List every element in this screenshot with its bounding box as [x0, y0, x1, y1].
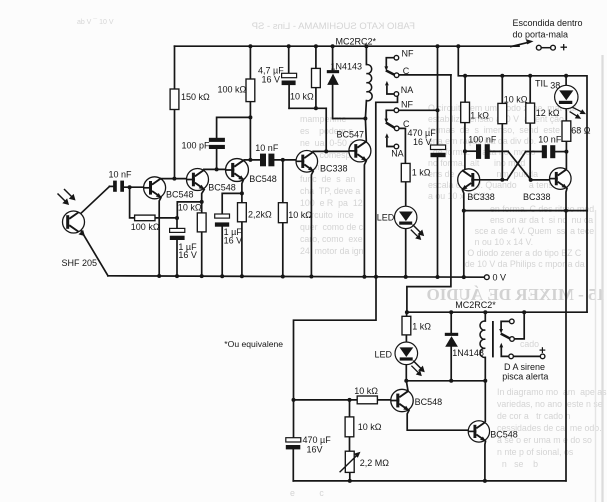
- contact NF1 circle: [394, 55, 399, 60]
- node 1uF C2 top: [175, 216, 179, 220]
- node Q5 base: [324, 149, 328, 153]
- relay coil K1: [366, 64, 372, 100]
- node Q2 collector tap: [215, 167, 219, 171]
- wire 470uF C7 drop from rail junction: [437, 46, 439, 145]
- svg-text:ab V ¯ 10 V: ab V ¯ 10 V: [75, 18, 114, 26]
- wire 100nF right to diagonal start: [490, 150, 508, 152]
- transistor Q6 BC548 lower: [391, 389, 413, 411]
- wire C1 long drop to lower section: [407, 75, 451, 312]
- resistor R7 10k: [278, 203, 287, 223]
- svg-text:LED: LED: [375, 350, 393, 360]
- svg-text:1N4148: 1N4148: [452, 348, 484, 358]
- SHF205 incoming light arrows: [58, 194, 70, 206]
- contact NA2 arrow: [385, 133, 389, 138]
- svg-text:*Ou equivalene: *Ou equivalene: [224, 339, 283, 349]
- wire Q5 emitter to rail: [364, 161, 366, 277]
- wire Q2 emitter node jog to 1uF node: [177, 202, 201, 218]
- node NF2 tap: [436, 108, 440, 112]
- trimmer arrow on R18: [340, 452, 361, 473]
- wire 10nF C9 right to collector node: [555, 151, 566, 153]
- capacitor C6 4.7uF electrolytic: [282, 73, 297, 85]
- resistor R10 1k: [401, 163, 410, 181]
- node Q2 emitter tap: [200, 200, 204, 204]
- wire NA2 left lead: [387, 139, 394, 147]
- svg-text:NF: NF: [402, 49, 414, 59]
- contact NA2 circle: [394, 144, 399, 149]
- contact NF2 arrow: [384, 119, 388, 124]
- resistor R1 150k: [170, 89, 179, 110]
- node lower bottom rail: [348, 479, 352, 483]
- wire Q4 collector to Q5 base: [313, 150, 349, 152]
- svg-text:no forma, alt ino med: no forma, alt ino med: [428, 158, 525, 168]
- sirene terminal circle right: [540, 354, 545, 359]
- svg-text:ens de ar da nm pueda: ens de ar da nm pueda: [428, 169, 538, 179]
- svg-text:Escondida dentro: Escondida dentro: [513, 18, 583, 28]
- resistor R2 100k vertical: [246, 79, 255, 102]
- wire coil K1 bottom to W2 node: [365, 101, 366, 119]
- wire 4.7uF top to rail: [288, 46, 290, 73]
- wire 470uF C7 bottom to 0V rail: [437, 157, 439, 277]
- svg-text:O diodo zener a do tipo BZ C: O diodo zener a do tipo BZ C: [460, 248, 586, 258]
- wire flip-flop supply branch from top rail: [458, 46, 587, 312]
- svg-text:100 e R pa 12: 100 e R pa 12: [300, 198, 365, 208]
- svg-text:NA: NA: [391, 149, 404, 159]
- relay2 contact NF circle: [510, 319, 515, 324]
- contact arm K1b: [386, 123, 395, 128]
- wire 150k bottom to Q1 collector node: [174, 110, 176, 179]
- wire phototransistor emitter diagonal to 0V rail: [81, 230, 108, 275]
- wire NF2 left lead: [386, 110, 394, 119]
- wire Q2 emitter down: [202, 190, 205, 213]
- capacitor C5 1uF electrolytic: [215, 214, 230, 227]
- contact NA1 circle: [394, 92, 399, 97]
- resistor R5 2.2k: [238, 203, 247, 222]
- svg-text:2,2 MΩ: 2,2 MΩ: [360, 458, 390, 468]
- wire lower LED branch 1k top: [406, 312, 408, 316]
- svg-text:BC338: BC338: [523, 192, 551, 202]
- wire cross diagonal B: [507, 152, 526, 180]
- LED1 light arrows: [413, 225, 425, 237]
- wire flip-flop emitter bus: [464, 210, 587, 212]
- wire Q9 base from diagonal: [531, 179, 550, 181]
- battery switch terminals: [536, 45, 555, 50]
- svg-text:pisca alerta: pisca alerta: [502, 371, 548, 381]
- wire Q3 emitter down to 2.2k: [242, 180, 244, 203]
- wire ff 1k R11 bottom to Q8 collector node: [464, 123, 466, 152]
- wire relay coil K1 top to rail: [365, 46, 367, 64]
- wire TIL38 to 68R: [565, 109, 567, 121]
- transistor Q8 BC338 flip-flop left (mirrored): [458, 169, 480, 191]
- wire 100k R5 bottom to Q3 collector node: [249, 102, 251, 160]
- svg-text:12 kΩ: 12 kΩ: [536, 108, 560, 118]
- node Q9 base 12k: [529, 178, 533, 182]
- svg-text:10 kΩ: 10 kΩ: [504, 95, 528, 105]
- svg-text:BC338: BC338: [467, 192, 495, 202]
- wire lower bottom rail: [293, 480, 566, 482]
- TIL38 light arrows: [570, 107, 586, 119]
- wire relay2 pole from rail: [514, 312, 524, 339]
- wire 4.7uF bottom to W1: [288, 85, 290, 108]
- node top rail junctions: [248, 44, 252, 48]
- svg-text:10 nF: 10 nF: [538, 135, 562, 145]
- wire Q1 emitter down to rail: [159, 198, 161, 276]
- LED LED2 lower: [395, 342, 418, 365]
- transistor Q2 BC548: [187, 169, 209, 191]
- svg-text:NA: NA: [401, 85, 414, 95]
- wire coil K2 top: [484, 312, 486, 321]
- relay coil K2: [480, 321, 485, 358]
- svg-text:BC548: BC548: [415, 397, 443, 407]
- resistor R14 1k lower: [402, 316, 411, 335]
- resistor R11 1k flip-flop: [461, 102, 470, 122]
- wire lower section supply rail: [407, 311, 587, 313]
- wire 1k R10 bottom to LED1: [405, 182, 407, 207]
- wire 10nF C4 right to Q4 base node: [274, 159, 296, 161]
- resistor R16 10k vertical lower: [345, 417, 354, 437]
- resistor R12 10k flip-flop: [498, 103, 507, 123]
- svg-text:func de s an: func de s an: [300, 174, 355, 184]
- node Q8 base 10k: [500, 178, 504, 182]
- wire 470uF C10 bottom to bottom rail: [292, 450, 294, 481]
- svg-text:10 kΩ: 10 kΩ: [290, 92, 314, 102]
- wire C2 contact down to 1k: [399, 128, 406, 163]
- svg-text:BC548: BC548: [208, 182, 236, 192]
- relay2 contact arm: [501, 334, 510, 339]
- svg-text:2,2kΩ: 2,2kΩ: [248, 209, 272, 219]
- node 0V rail junctions: [157, 274, 161, 278]
- wire LED2 cathode to node: [405, 365, 407, 381]
- wire Q7 emitter to bottom rail: [484, 441, 487, 481]
- wire NF2 contact to 470uF drop: [399, 109, 438, 111]
- wire 10nF C1 right to Q1 base: [124, 186, 144, 188]
- wire BC547 base node up to W1: [325, 108, 327, 151]
- contact arm K1a: [386, 70, 395, 74]
- svg-text:ens on ar da t si nc nu ca: ens on ar da t si nc nu ca: [490, 215, 593, 225]
- wire Q9 emitter down: [566, 188, 567, 210]
- svg-text:10 kΩ: 10 kΩ: [178, 203, 202, 213]
- svg-text:BC548: BC548: [249, 174, 277, 184]
- svg-text:escala de 4 V. Quando a te: escala de 4 V. Quando a tensão: [428, 180, 563, 190]
- svg-text:100 kΩ: 100 kΩ: [131, 222, 160, 232]
- wire ff 1k R11 top: [464, 76, 466, 102]
- capacitor C8 100nF flip-flop: [476, 144, 490, 159]
- wire NA1 contact lead with arrow stub: [387, 86, 394, 94]
- svg-text:0 V: 0 V: [493, 273, 507, 283]
- diode D1 1N4143: [327, 70, 339, 85]
- resistor R6 10k top: [312, 68, 321, 87]
- wire 1uF C5 bottom to rail: [221, 227, 223, 277]
- svg-text:LED: LED: [377, 213, 395, 223]
- svg-text:quer como de c: quer como de c: [300, 222, 364, 232]
- sirene NA arrow: [499, 343, 503, 348]
- switch arrow on top rail (to battery): [510, 39, 534, 47]
- plus sign battery: [561, 44, 568, 50]
- wire 1uF C2 top to node: [176, 218, 178, 228]
- transistor Q5 BC547: [349, 140, 371, 162]
- page column rule (faint): [601, 55, 603, 502]
- svg-text:68 Ω: 68 Ω: [571, 125, 591, 135]
- svg-text:15 - MIXER DE ÁUDIO: 15 - MIXER DE ÁUDIO: [427, 285, 606, 304]
- wire Q5 collector up to W2 node: [364, 119, 367, 142]
- relay2 contact C circle: [510, 337, 515, 342]
- wire Q3 collector to 10nF C4: [243, 159, 260, 162]
- wire sirene NA lead: [501, 347, 509, 356]
- wire ff 12k R13 top: [529, 76, 531, 103]
- node lower rail junctions: [405, 310, 409, 314]
- wire Q8 collector up: [464, 151, 466, 169]
- capacitor C4 10nF interstage: [260, 154, 274, 167]
- LED TIL38: [555, 85, 578, 108]
- wire Q4 emitter to rail: [311, 171, 313, 276]
- wire 1uF C2 bottom to rail: [176, 240, 178, 276]
- svg-text:1 kΩ: 1 kΩ: [470, 111, 489, 121]
- svg-text:470 µF: 470 µF: [303, 435, 332, 445]
- wire ff 12k R13 down to Q9 base node: [529, 123, 531, 180]
- capacitor C7 470uF electrolytic: [431, 145, 446, 157]
- wire 10k R4 bottom to rail: [201, 232, 203, 276]
- wire ff bus right drop to lower section bottom rail: [565, 211, 567, 481]
- svg-text:38: 38: [550, 80, 560, 90]
- transistor Q3 BC548: [226, 159, 249, 182]
- wire NF1 contact lead: [386, 58, 394, 67]
- wire Q1 base node down to 100k left: [130, 187, 135, 218]
- wire Q8 emitter down: [462, 190, 463, 211]
- transistor Q1 BC548: [144, 177, 166, 199]
- diode D2 1N4148: [445, 333, 458, 347]
- svg-text:BC548: BC548: [166, 190, 194, 200]
- svg-text:cha TP, deve a: cha TP, deve a: [300, 186, 360, 196]
- resistor R17 10k horizontal lower: [357, 396, 377, 404]
- wire relay2 NF lead: [501, 321, 510, 329]
- svg-text:100 pF: 100 pF: [182, 140, 211, 150]
- sirene plus sign: [540, 347, 546, 353]
- node Q3 emitter tap: [240, 191, 244, 195]
- resistor R13 12k flip-flop: [526, 103, 535, 123]
- svg-text:n ou 10 x 14 V.: n ou 10 x 14 V.: [460, 237, 533, 247]
- wire 10k R16 drop: [349, 400, 351, 417]
- svg-text:BC548: BC548: [490, 429, 518, 439]
- wire ff 10k R12 top: [501, 76, 503, 104]
- wire Q1 collector to Q2 base: [157, 178, 187, 180]
- node Q9 collector: [564, 150, 568, 154]
- svg-text:10 nF: 10 nF: [109, 170, 133, 180]
- node Q6 base chain: [292, 398, 296, 402]
- wire W2 horizontal diode to coil node: [333, 118, 366, 120]
- capacitor C2 1uF electrolytic: [170, 228, 185, 240]
- wire LED1 cathode to rail: [405, 228, 407, 277]
- wire 10k R6 top to rail: [315, 46, 317, 68]
- svg-text:caro, como exe: caro, como exe: [300, 234, 363, 244]
- svg-text:BC338: BC338: [320, 164, 348, 174]
- svg-text:cado: cado: [520, 339, 539, 349]
- wire diode 1N4148 top: [450, 312, 452, 333]
- contact NF1 arrow: [384, 66, 388, 71]
- wire top supply rail: [175, 45, 520, 47]
- svg-text:NF: NF: [401, 100, 413, 110]
- relay K2 core bar: [492, 321, 494, 357]
- node 100pF top: [248, 115, 252, 119]
- node Q3 collector: [248, 158, 252, 162]
- wire 10k R16 to trimmer: [349, 437, 351, 451]
- transistor Q4 BC338: [296, 151, 318, 173]
- node Q1 base: [128, 185, 132, 189]
- wire ff bus left drop to 0V rail: [463, 211, 465, 278]
- capacitor C9 10nF flip-flop: [542, 145, 556, 158]
- resistor R18 2.2M trimmer body: [345, 451, 354, 472]
- node Q1 collector: [172, 177, 176, 181]
- svg-text:n nte p of sional, os: n nte p of sional, os: [497, 447, 574, 457]
- sirene terminal circle left: [509, 354, 514, 359]
- wire left drop to 150k: [174, 46, 176, 89]
- capacitor C3 100pF: [209, 138, 225, 149]
- svg-text:In diagramo mo am ape as: In diagramo mo am ape as: [497, 387, 607, 397]
- wire 10nF C9 left: [526, 151, 542, 153]
- svg-text:16V: 16V: [307, 445, 323, 455]
- wire Q8 base to diagonal B: [480, 179, 507, 181]
- LED LED1: [395, 206, 417, 228]
- wire NA1 to ground corner: [376, 96, 398, 277]
- node W2 coil: [363, 117, 367, 121]
- wire 470uF C10 drop: [293, 400, 295, 438]
- wire diode 1N4143 bottom to W2: [332, 85, 334, 119]
- wire 100nF node left: [465, 150, 476, 152]
- svg-text:16 V: 16 V: [413, 137, 432, 147]
- wire Q6 base chain: [294, 399, 392, 401]
- node Q8 collector: [463, 149, 467, 153]
- capacitor C10 470uF lower: [286, 438, 301, 450]
- phototransistor Q0 SHF205: [63, 211, 85, 236]
- svg-text:sce a de 4 V. Quem ss a tece: sce a de 4 V. Quem ss a tece: [460, 226, 594, 236]
- wire sirene terminal link: [513, 355, 540, 357]
- wire 1k R14 to LED2: [405, 335, 407, 342]
- wire 10nF C1 left stub to phototransistor: [110, 185, 114, 187]
- wire ff 10k R12 down to Q8 base wire: [501, 124, 503, 180]
- svg-text:16 V: 16 V: [178, 250, 197, 260]
- resistor R4 10k: [197, 213, 206, 232]
- svg-text:100 kΩ: 100 kΩ: [218, 85, 247, 95]
- svg-text:de cor a tr cado n: de cor a tr cado n: [497, 411, 570, 421]
- relay2 NF arrow: [499, 329, 503, 334]
- svg-text:1 kΩ: 1 kΩ: [412, 321, 431, 331]
- contact C1 circle: [394, 73, 399, 78]
- wire left return loop from 0V rail: [294, 277, 377, 400]
- svg-text:variedas, no ano este n se: variedas, no ano este n se: [497, 399, 603, 409]
- svg-text:1N4143: 1N4143: [331, 61, 363, 71]
- node Q4 base: [281, 158, 285, 162]
- wire diode 1N4148 bottom: [450, 347, 452, 381]
- wire 10k R7 bottom to rail: [282, 223, 284, 277]
- wire W1 horizontal 4.7uF to base-drop: [289, 107, 326, 109]
- wire coil K2 bottom: [484, 357, 486, 380]
- svg-text:do porta-mala: do porta-mala: [513, 30, 569, 40]
- resistor R15 68R: [562, 121, 571, 141]
- svg-text:24 motor da ign: 24 motor da ign: [300, 246, 364, 256]
- contact C2 circle: [394, 126, 399, 131]
- svg-text:BC547: BC547: [337, 130, 365, 140]
- wire diode 1N4143 top to rail: [332, 46, 334, 70]
- transistor Q7 BC548 lower right: [468, 421, 489, 442]
- LED2 light arrows: [413, 361, 425, 373]
- svg-text:n se b: n se b: [497, 459, 538, 469]
- wire 100pF top to 100k node: [217, 117, 251, 137]
- svg-text:10 kΩ: 10 kΩ: [354, 386, 378, 396]
- svg-text:10 kΩ: 10 kΩ: [358, 422, 382, 432]
- wire 100pF bottom to Q2 collector wire: [216, 149, 218, 169]
- wire trimmer bottom to rail: [349, 472, 351, 481]
- wire cross diagonal A: [508, 151, 531, 180]
- svg-text:100 nF: 100 nF: [468, 134, 497, 144]
- wire TIL38 top: [565, 76, 567, 86]
- wire 100k right to 1uF node: [155, 217, 177, 219]
- wire phototransistor collector diagonal: [81, 186, 110, 213]
- svg-text:en forma. C des ritmo med: en forma. C des ritmo med: [490, 204, 594, 214]
- svg-text:150 kΩ: 150 kΩ: [181, 92, 210, 102]
- svg-text:10 kΩ: 10 kΩ: [288, 210, 312, 220]
- svg-text:MC2RC2*: MC2RC2*: [455, 300, 496, 310]
- wire Q6 collector up to LED node: [406, 381, 408, 392]
- node LED2 bus: [404, 379, 408, 383]
- contact NA1 arrow: [385, 81, 389, 86]
- svg-text:1 kΩ: 1 kΩ: [412, 167, 431, 177]
- node ff rail junctions: [463, 74, 467, 78]
- svg-text:TIL: TIL: [535, 78, 548, 88]
- svg-text:MC2RC2*: MC2RC2*: [336, 37, 377, 47]
- wire Q7 collector up to bus: [484, 381, 486, 422]
- svg-text:e c: e c: [290, 488, 324, 498]
- wire 68R bottom to Q9 collector: [565, 141, 567, 168]
- svg-text:FABIO KATO SUGHIMAMA - Lins -: FABIO KATO SUGHIMAMA - Lins - SP: [252, 21, 415, 32]
- wire 100k R5 top rail drop: [249, 46, 251, 79]
- wire 2.2k bottom to rail: [241, 222, 243, 276]
- wire lower horizontal node bus: [406, 380, 485, 382]
- resistor R3 100k horizontal: [135, 215, 155, 221]
- transistor Q9 BC338 flip-flop right: [550, 168, 572, 190]
- wire Q2 collector to Q3 base: [204, 168, 226, 170]
- svg-text:16 V: 16 V: [262, 75, 281, 85]
- wire Q3 emitter node jog to 1uF C5: [222, 193, 242, 214]
- svg-text:de 10 V da Philips c mpor a da: de 10 V da Philips c mpor a da: [460, 259, 592, 269]
- svg-text:10 nF: 10 nF: [255, 143, 279, 153]
- svg-text:SHF 205: SHF 205: [62, 258, 98, 268]
- node ff emitter bus: [462, 209, 466, 213]
- node W1 10k: [314, 106, 318, 110]
- wire 0V ground rail: [108, 276, 484, 277]
- svg-text:C: C: [403, 66, 410, 76]
- svg-text:16 V: 16 V: [224, 235, 243, 245]
- 0V terminal circle: [484, 275, 489, 280]
- wire C1 contact to right drop: [399, 74, 451, 76]
- capacitor C1 10nF input: [113, 181, 124, 192]
- wire Q4 base node down to 10k R7: [282, 160, 284, 203]
- wire 10k R6 bottom to W1: [315, 88, 317, 109]
- contact NF2 circle: [394, 108, 399, 113]
- wire Q6 emitter to Q7 base: [407, 410, 468, 430]
